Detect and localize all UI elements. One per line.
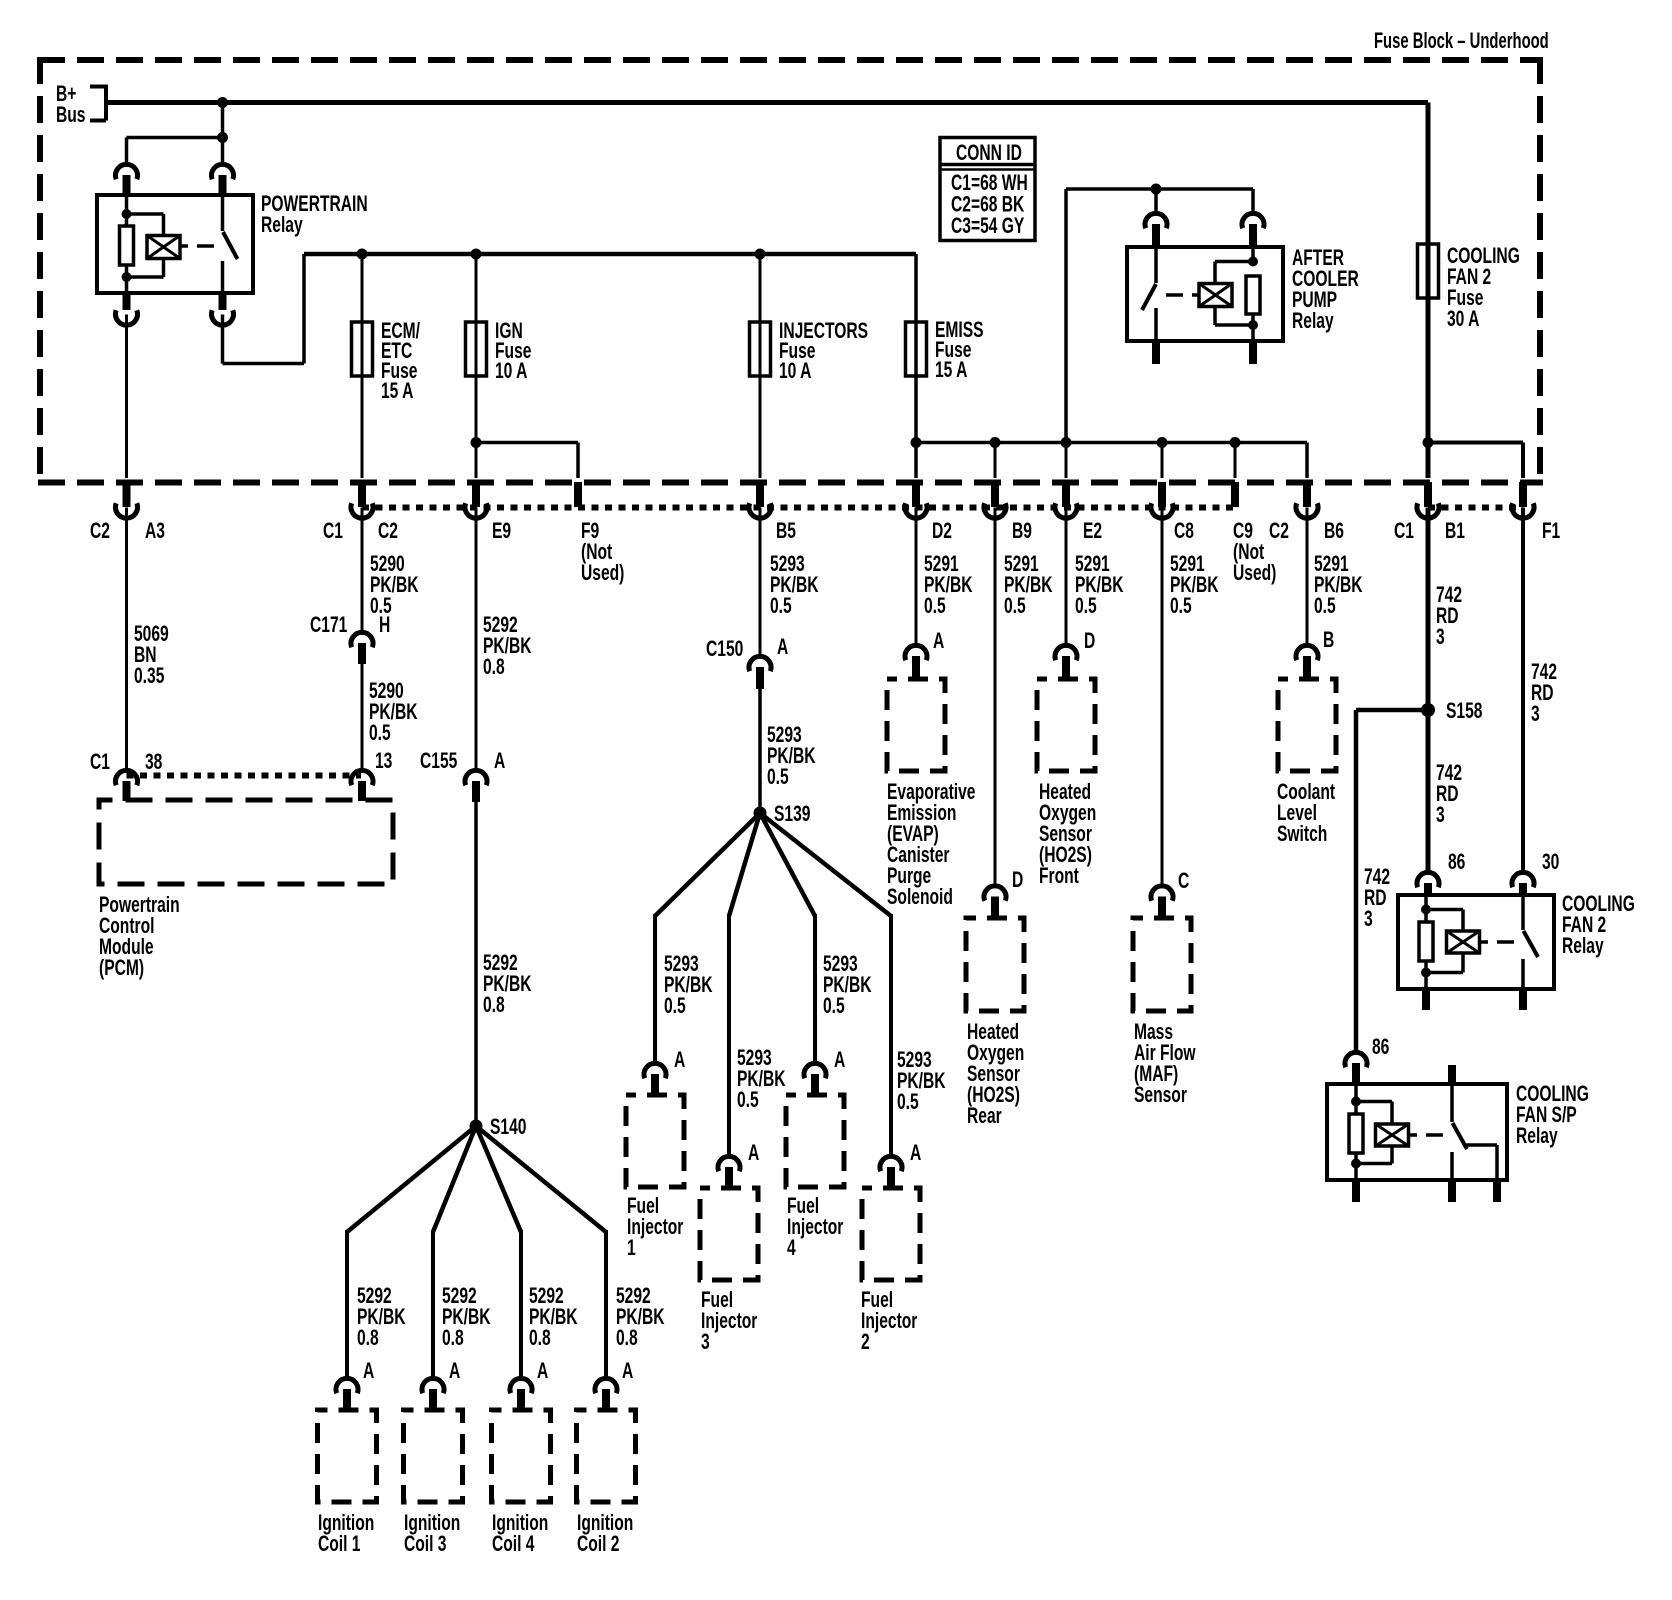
svg-text:3: 3 [701, 1331, 710, 1355]
svg-text:Used): Used) [1233, 562, 1276, 586]
svg-text:30: 30 [1542, 851, 1559, 875]
svg-text:C171: C171 [310, 614, 348, 638]
coolant level switch box [1278, 679, 1336, 771]
node S139 [758, 689, 762, 813]
relay COOLING FAN S/P box [1327, 1084, 1507, 1180]
svg-text:0.35: 0.35 [134, 665, 165, 689]
connector PCM pin 38 [116, 770, 138, 785]
svg-text:0.5: 0.5 [1170, 595, 1192, 619]
after cooler relay switch [1154, 247, 1158, 283]
connector EVAP A [915, 508, 918, 646]
svg-text:86: 86 [1372, 1036, 1389, 1060]
svg-text:3: 3 [1364, 908, 1373, 932]
svg-text:A: A [363, 1360, 374, 1384]
svg-text:C150: C150 [706, 638, 743, 662]
svg-text:0.5: 0.5 [664, 995, 686, 1019]
wire dotted PCM connector row [127, 773, 362, 779]
wire dotted connector row C1 [1428, 505, 1523, 511]
svg-text:C2: C2 [1269, 520, 1289, 544]
relay coil resistor branch [125, 196, 129, 226]
connector C9 not used [1230, 437, 1241, 448]
svg-text:0.5: 0.5 [767, 766, 789, 790]
svg-text:Front: Front [1039, 865, 1079, 889]
svg-text:B: B [1323, 629, 1334, 653]
svg-text:C155: C155 [420, 750, 458, 774]
node S158 [1426, 508, 1431, 873]
svg-text:0.5: 0.5 [924, 595, 946, 619]
fuse block border [38, 57, 1543, 63]
fuse IGN [475, 254, 478, 478]
svg-text:Coil 2: Coil 2 [577, 1533, 619, 1557]
svg-text:15 A: 15 A [935, 359, 968, 383]
svg-text:B9: B9 [1012, 520, 1032, 544]
wire dotted connector row C2 [362, 505, 1235, 511]
svg-text:D2: D2 [932, 520, 952, 544]
connector B1 [1424, 482, 1432, 507]
svg-text:A3: A3 [145, 520, 165, 544]
svg-text:C1: C1 [1394, 520, 1414, 544]
connector D2 [912, 482, 920, 507]
connector PCM pin 13 [361, 664, 364, 770]
svg-text:Coil 4: Coil 4 [492, 1533, 535, 1557]
connector C171 [361, 508, 364, 633]
wire after cooler riser [1061, 437, 1072, 448]
node S140 [474, 802, 478, 1126]
svg-text:10 A: 10 A [779, 360, 812, 384]
svg-text:0.8: 0.8 [529, 1327, 551, 1351]
svg-text:Bus: Bus [56, 104, 85, 128]
ignition coil 1 box [318, 1410, 377, 1502]
relay AFTER COOLER PUMP box [1127, 247, 1283, 341]
svg-text:0.5: 0.5 [1075, 595, 1097, 619]
wire distribution line [916, 441, 1307, 445]
connector HO2S front D [1065, 508, 1068, 646]
wire B+ bus [106, 100, 1428, 105]
fuse INJECTORS [759, 254, 762, 478]
svg-text:B1: B1 [1445, 520, 1465, 544]
fan2 relay bottom stubs [1422, 989, 1430, 1010]
connector B9 [990, 437, 1001, 448]
connector E2 [1065, 443, 1068, 479]
ignition coil 4 box [492, 1410, 551, 1502]
svg-text:1: 1 [627, 1237, 636, 1261]
wire S140 branch 2 [433, 1126, 476, 1232]
svg-text:E9: E9 [492, 520, 511, 544]
svg-text:0.5: 0.5 [823, 995, 845, 1019]
svg-text:C8: C8 [1174, 520, 1194, 544]
svg-text:A: A [933, 630, 944, 654]
svg-text:13: 13 [375, 750, 392, 774]
S/P relay actuator dashes [1409, 1133, 1417, 1137]
HO2S front box [1037, 679, 1095, 771]
wire S139 branch 3 [760, 813, 815, 916]
svg-text:F1: F1 [1542, 520, 1561, 544]
svg-text:A: A [449, 1360, 460, 1384]
wire S139 branch 1 [655, 813, 760, 916]
svg-text:S158: S158 [1446, 700, 1483, 724]
svg-text:S139: S139 [774, 803, 810, 827]
MAF sensor box [1133, 918, 1191, 1011]
after cooler relay actuator dashes [1166, 293, 1183, 297]
svg-text:C3=54 GY: C3=54 GY [951, 215, 1025, 239]
fan2 relay coil [1424, 895, 1428, 922]
svg-text:0.5: 0.5 [369, 722, 391, 746]
fuel injector 1 box [626, 1095, 684, 1187]
connector MAF C [1161, 508, 1164, 886]
relay switch [221, 195, 225, 231]
svg-text:CONN ID: CONN ID [956, 142, 1022, 166]
wire S140 branch 3 [476, 1126, 521, 1232]
svg-text:Coil 1: Coil 1 [318, 1533, 361, 1557]
svg-text:Switch: Switch [1277, 823, 1327, 847]
svg-text:0.5: 0.5 [770, 595, 792, 619]
connector 30 fan2 [1521, 508, 1525, 873]
svg-text:3: 3 [1436, 626, 1445, 650]
svg-text:Solenoid: Solenoid [887, 886, 953, 910]
S/P relay coil [1354, 1084, 1358, 1114]
svg-text:A: A [777, 636, 788, 660]
svg-text:H: H [379, 614, 390, 638]
svg-text:B5: B5 [776, 520, 796, 544]
wire S140 branch 1 [347, 1126, 476, 1232]
S/P relay bottom stubs [1352, 1180, 1360, 1202]
svg-text:A: A [748, 1142, 759, 1166]
ignition coil 2 box [577, 1410, 636, 1502]
svg-text:D: D [1012, 869, 1023, 893]
node bus/relay [217, 97, 228, 108]
svg-text:Relay: Relay [1562, 935, 1604, 959]
svg-text:0.8: 0.8 [483, 656, 505, 680]
B+ bus bracket [90, 85, 106, 89]
HO2S rear box [966, 918, 1024, 1011]
wire to powertrain relay [221, 103, 225, 165]
fan2 relay actuator dashes [1480, 940, 1488, 944]
wire A3 to PCM [125, 315, 128, 479]
EVAP solenoid box [887, 679, 945, 771]
wire S139 branch 4 [760, 813, 891, 916]
connector powertrain relay pin tops [123, 175, 131, 196]
svg-text:30 A: 30 A [1447, 308, 1480, 332]
relay bottom pins [123, 293, 131, 310]
svg-text:Coil 3: Coil 3 [404, 1533, 446, 1557]
ignition coil 3 box [404, 1410, 463, 1502]
svg-text:A: A [537, 1360, 548, 1384]
svg-text:C2: C2 [90, 520, 110, 544]
connector C8 [1157, 437, 1168, 448]
wire to F1 [1423, 437, 1434, 448]
svg-text:0.8: 0.8 [442, 1327, 464, 1351]
svg-text:4: 4 [787, 1237, 796, 1261]
svg-text:C1: C1 [90, 751, 110, 775]
connector coolant B [1306, 508, 1309, 646]
connector F1 [1519, 482, 1527, 507]
svg-text:2: 2 [861, 1331, 870, 1355]
connector HO2S rear D [994, 508, 997, 886]
svg-text:A: A [834, 1049, 845, 1073]
svg-text:Fuse Block – Underhood: Fuse Block – Underhood [1374, 28, 1549, 53]
connector after cooler relay pins [1154, 189, 1158, 213]
wire S158 to S/P relay [1356, 708, 1428, 713]
wire S140 branch 4 [476, 1126, 606, 1232]
svg-text:Relay: Relay [1292, 310, 1334, 334]
svg-text:C: C [1178, 870, 1189, 894]
fuel injector 3 wire/connector [727, 914, 731, 1156]
fuel injector 4 wire/connector [813, 914, 817, 1063]
svg-text:38: 38 [145, 751, 163, 775]
svg-text:D: D [1084, 630, 1095, 654]
svg-text:E2: E2 [1083, 520, 1102, 544]
fuel injector 1 wire/connector [653, 914, 657, 1063]
fuel injector 2 wire/connector [889, 914, 893, 1156]
svg-text:A: A [674, 1049, 685, 1073]
svg-text:A: A [622, 1360, 633, 1384]
connector B6 [1305, 443, 1309, 479]
svg-text:C1: C1 [323, 520, 343, 544]
fuel injector 4 box [786, 1095, 844, 1187]
after cooler relay coil [1251, 247, 1255, 262]
wire S139 branch 2 [729, 813, 760, 916]
svg-text:S140: S140 [490, 1116, 526, 1140]
fuse COOLING FAN 2 [1426, 103, 1431, 479]
fuel injector 2 box [862, 1188, 920, 1280]
svg-text:0.5: 0.5 [897, 1091, 919, 1115]
svg-text:0.8: 0.8 [483, 994, 505, 1018]
connector C150 [759, 508, 762, 657]
relay POWERTRAIN box [97, 195, 253, 293]
svg-text:Sensor: Sensor [1134, 1084, 1187, 1108]
CONN ID table [940, 138, 1035, 241]
svg-text:A: A [910, 1142, 921, 1166]
wire F9 branch [471, 437, 482, 448]
Powertrain Control Module box [99, 800, 393, 884]
svg-text:Rear: Rear [967, 1105, 1002, 1129]
svg-text:86: 86 [1448, 851, 1465, 875]
fuse EMISS [914, 254, 918, 478]
svg-text:0.5: 0.5 [1314, 595, 1336, 619]
connector E9 [472, 482, 480, 507]
S/P relay switch [1448, 1065, 1456, 1086]
svg-text:0.8: 0.8 [357, 1327, 379, 1351]
svg-text:0.8: 0.8 [616, 1327, 638, 1351]
wire relay output to fuse feed [221, 315, 225, 364]
svg-text:C2: C2 [378, 520, 398, 544]
svg-text:Relay: Relay [261, 214, 303, 238]
connector C155 [475, 508, 478, 771]
svg-text:B6: B6 [1324, 520, 1344, 544]
fan2 relay switch [1521, 895, 1525, 930]
svg-text:3: 3 [1531, 703, 1540, 727]
svg-text:10 A: 10 A [495, 360, 528, 384]
fuel injector 3 box [700, 1188, 758, 1280]
fuse ECM/ETC [361, 254, 364, 478]
svg-text:15 A: 15 A [381, 380, 414, 404]
svg-text:Relay: Relay [1516, 1125, 1558, 1149]
relay COOLING FAN 2 box [1398, 895, 1554, 989]
relay actuator dashes [180, 244, 188, 248]
svg-text:Used): Used) [581, 562, 624, 586]
svg-text:(PCM): (PCM) [99, 957, 144, 981]
svg-text:A: A [494, 750, 505, 774]
svg-text:0.5: 0.5 [1004, 595, 1026, 619]
svg-text:0.5: 0.5 [737, 1089, 759, 1113]
svg-text:3: 3 [1436, 804, 1445, 828]
